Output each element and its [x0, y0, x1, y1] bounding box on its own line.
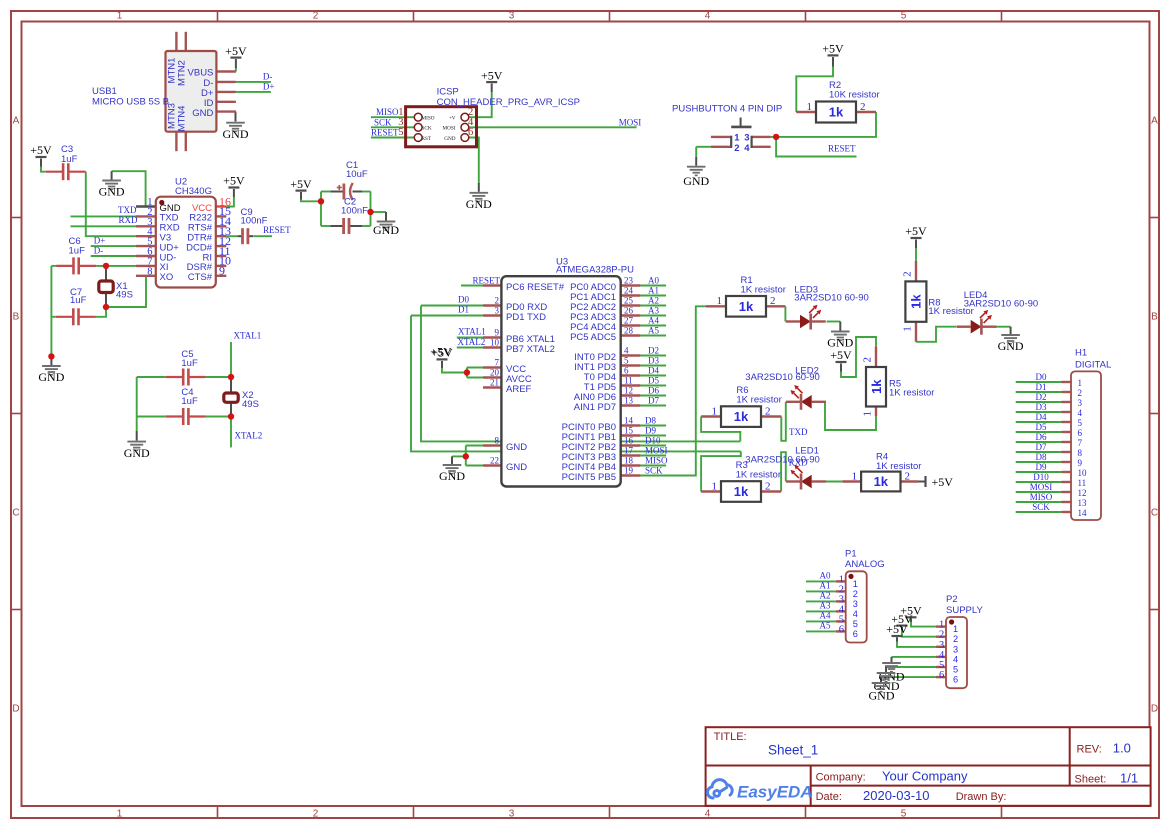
svg-text:A0: A0 — [648, 275, 659, 285]
svg-text:6: 6 — [1078, 428, 1083, 438]
svg-text:25: 25 — [624, 296, 634, 306]
svg-text:RXD: RXD — [118, 215, 138, 225]
svg-text:27: 27 — [624, 316, 634, 326]
svg-text:1: 1 — [1078, 378, 1083, 388]
svg-text:3: 3 — [495, 306, 500, 316]
svg-text:3AR2SD10 60-90: 3AR2SD10 60-90 — [964, 299, 1038, 310]
svg-text:7: 7 — [495, 358, 500, 368]
svg-text:CON_HEADER_PRG_AVR_ICSP: CON_HEADER_PRG_AVR_ICSP — [437, 97, 580, 108]
svg-text:6: 6 — [468, 127, 473, 138]
svg-text:+5V: +5V — [225, 44, 247, 58]
svg-text:8: 8 — [495, 436, 500, 446]
svg-text:D6: D6 — [648, 385, 659, 395]
svg-text:SCK: SCK — [645, 465, 663, 475]
svg-text:GND: GND — [506, 462, 527, 473]
svg-text:RESET: RESET — [828, 144, 856, 154]
svg-text:2: 2 — [770, 295, 776, 307]
svg-text:8: 8 — [147, 266, 152, 277]
svg-text:2: 2 — [734, 143, 739, 154]
svg-text:PC6 RESET#: PC6 RESET# — [506, 282, 565, 293]
svg-text:EasyEDA: EasyEDA — [737, 783, 813, 802]
svg-text:RESET: RESET — [472, 276, 500, 286]
svg-text:GND: GND — [124, 446, 150, 460]
svg-text:D7: D7 — [648, 395, 659, 405]
svg-text:11: 11 — [624, 376, 633, 386]
svg-text:1uF: 1uF — [69, 246, 86, 257]
svg-text:10K resistor: 10K resistor — [829, 89, 880, 100]
svg-text:5: 5 — [853, 619, 858, 629]
svg-text:3: 3 — [1078, 398, 1083, 408]
svg-text:TXD: TXD — [118, 205, 137, 215]
svg-text:GND: GND — [373, 223, 399, 237]
svg-text:1k: 1k — [869, 379, 884, 394]
svg-text:D3: D3 — [1036, 402, 1047, 412]
svg-text:AIN1 PD7: AIN1 PD7 — [574, 402, 616, 413]
svg-text:1: 1 — [901, 326, 913, 332]
svg-text:PCINT5 PB5: PCINT5 PB5 — [562, 472, 616, 483]
svg-text:1: 1 — [712, 480, 718, 492]
svg-text:ATMEGA328P-PU: ATMEGA328P-PU — [556, 265, 634, 276]
svg-text:3: 3 — [853, 599, 858, 609]
svg-text:49S: 49S — [116, 290, 133, 301]
svg-text:GND: GND — [439, 469, 465, 483]
svg-text:XTAL2: XTAL2 — [235, 430, 263, 440]
svg-text:2: 2 — [862, 357, 874, 363]
svg-text:26: 26 — [624, 306, 634, 316]
svg-text:9: 9 — [495, 328, 500, 338]
svg-text:D10: D10 — [1033, 472, 1049, 482]
svg-text:2: 2 — [765, 480, 771, 492]
svg-text:D: D — [12, 704, 19, 715]
svg-text:1uF: 1uF — [181, 396, 198, 407]
svg-text:A4: A4 — [820, 610, 831, 620]
svg-text:D2: D2 — [1036, 392, 1047, 402]
svg-text:D0: D0 — [458, 294, 469, 304]
svg-text:MISO: MISO — [645, 455, 668, 465]
svg-text:GND: GND — [444, 136, 455, 142]
svg-text:1K resistor: 1K resistor — [736, 470, 781, 481]
svg-text:2: 2 — [313, 809, 319, 820]
svg-text:2: 2 — [1078, 388, 1083, 398]
svg-text:A5: A5 — [820, 620, 831, 630]
svg-text:USB1: USB1 — [92, 86, 117, 97]
svg-text:TITLE:: TITLE: — [714, 731, 747, 743]
svg-text:1.0: 1.0 — [1113, 740, 1131, 755]
svg-text:SUPPLY: SUPPLY — [946, 605, 983, 616]
svg-text:MISO: MISO — [422, 116, 435, 122]
svg-text:2: 2 — [901, 271, 913, 277]
svg-text:GND: GND — [99, 185, 125, 199]
svg-text:D+: D+ — [263, 81, 275, 91]
svg-text:SCK: SCK — [374, 118, 392, 128]
svg-text:1: 1 — [953, 624, 958, 634]
svg-text:D0: D0 — [1036, 372, 1047, 382]
svg-text:D3: D3 — [648, 355, 659, 365]
svg-text:+5V: +5V — [822, 42, 844, 56]
svg-text:GND: GND — [683, 174, 709, 188]
svg-text:28: 28 — [624, 326, 634, 336]
svg-text:6: 6 — [839, 624, 844, 635]
svg-text:SCK: SCK — [1032, 502, 1050, 512]
svg-text:XTAL1: XTAL1 — [458, 327, 486, 337]
svg-text:4: 4 — [744, 143, 750, 154]
svg-text:P2: P2 — [946, 594, 958, 605]
svg-text:PUSHBUTTON 4 PIN DIP: PUSHBUTTON 4 PIN DIP — [672, 104, 782, 115]
svg-text:RXD: RXD — [789, 458, 809, 468]
svg-text:16: 16 — [624, 436, 634, 446]
svg-text:D: D — [1151, 704, 1158, 715]
svg-text:C: C — [12, 508, 19, 519]
svg-text:D5: D5 — [1036, 422, 1047, 432]
svg-text:1uF: 1uF — [181, 358, 198, 369]
svg-text:10: 10 — [490, 338, 500, 348]
svg-text:2: 2 — [313, 11, 319, 22]
svg-text:D4: D4 — [1036, 412, 1047, 422]
svg-text:D7: D7 — [1036, 442, 1047, 452]
svg-text:23: 23 — [624, 276, 634, 286]
svg-text:D-: D- — [94, 246, 104, 256]
svg-text:1k: 1k — [829, 105, 844, 120]
svg-text:A4: A4 — [648, 315, 659, 325]
svg-text:3AR2SD10 60-90: 3AR2SD10 60-90 — [745, 372, 819, 383]
svg-text:4: 4 — [705, 11, 711, 22]
svg-text:12: 12 — [1078, 488, 1087, 498]
svg-text:2: 2 — [953, 634, 958, 644]
svg-text:5: 5 — [901, 11, 907, 22]
svg-text:DIGITAL: DIGITAL — [1075, 359, 1111, 370]
svg-text:1k: 1k — [734, 484, 749, 499]
svg-text:9: 9 — [219, 264, 225, 278]
svg-text:H1: H1 — [1075, 348, 1087, 359]
svg-text:Your Company: Your Company — [882, 768, 968, 783]
svg-text:B: B — [1151, 312, 1158, 323]
svg-text:GND: GND — [998, 339, 1024, 353]
svg-text:D1: D1 — [458, 304, 469, 314]
svg-text:TXD: TXD — [789, 427, 808, 437]
svg-text:+5V: +5V — [30, 143, 52, 157]
svg-text:D-: D- — [263, 71, 273, 81]
svg-text:1: 1 — [862, 411, 874, 417]
svg-text:5: 5 — [624, 356, 629, 366]
svg-text:GND: GND — [192, 108, 213, 119]
svg-text:5: 5 — [398, 127, 403, 138]
svg-text:A1: A1 — [820, 580, 831, 590]
svg-text:1: 1 — [117, 11, 123, 22]
svg-text:13: 13 — [1078, 498, 1088, 508]
svg-text:+V: +V — [449, 116, 456, 122]
svg-text:MISO: MISO — [376, 107, 399, 117]
svg-text:A3: A3 — [648, 305, 659, 315]
svg-text:6: 6 — [953, 675, 958, 685]
svg-text:D+: D+ — [94, 236, 106, 246]
svg-text:+5V: +5V — [481, 68, 503, 82]
svg-text:XO: XO — [160, 272, 174, 283]
svg-text:6: 6 — [624, 366, 629, 376]
svg-text:3AR2SD10 60-90: 3AR2SD10 60-90 — [745, 455, 819, 466]
svg-text:4: 4 — [853, 609, 858, 619]
svg-text:Date:: Date: — [816, 791, 842, 803]
svg-text:D6: D6 — [1036, 432, 1047, 442]
svg-text:MISO: MISO — [1030, 492, 1053, 502]
svg-text:B: B — [13, 312, 20, 323]
svg-text:3: 3 — [509, 11, 515, 22]
svg-text:GND: GND — [223, 127, 249, 141]
svg-text:+5V: +5V — [886, 622, 908, 636]
svg-text:PC5 ADC5: PC5 ADC5 — [570, 332, 616, 343]
svg-text:D5: D5 — [648, 375, 659, 385]
svg-text:1: 1 — [117, 809, 123, 820]
svg-text:1/1: 1/1 — [1120, 770, 1138, 785]
svg-text:4: 4 — [953, 654, 958, 664]
svg-text:+5V: +5V — [290, 177, 312, 191]
svg-text:+5V: +5V — [430, 345, 452, 359]
svg-text:D1: D1 — [1036, 382, 1047, 392]
svg-text:A0: A0 — [820, 570, 831, 580]
svg-text:1: 1 — [717, 295, 723, 307]
svg-text:REV:: REV: — [1077, 743, 1102, 755]
svg-text:RST: RST — [422, 136, 432, 142]
svg-text:Company:: Company: — [816, 771, 866, 783]
svg-text:SCK: SCK — [422, 126, 432, 132]
svg-text:22: 22 — [490, 456, 499, 466]
svg-text:MOSI: MOSI — [443, 126, 456, 132]
svg-text:A5: A5 — [648, 325, 659, 335]
svg-text:A3: A3 — [820, 600, 831, 610]
svg-text:6: 6 — [853, 629, 858, 639]
svg-text:GND: GND — [506, 442, 527, 453]
svg-text:Sheet:: Sheet: — [1075, 773, 1107, 785]
svg-text:6: 6 — [939, 670, 944, 681]
svg-text:MTN4: MTN4 — [176, 106, 187, 132]
svg-text:4: 4 — [624, 346, 629, 356]
svg-text:VBUS: VBUS — [188, 68, 214, 79]
svg-text:XTAL2: XTAL2 — [458, 337, 486, 347]
svg-text:21: 21 — [490, 378, 499, 388]
svg-text:3: 3 — [509, 809, 515, 820]
svg-text:1k: 1k — [874, 474, 889, 489]
svg-text:A: A — [1151, 116, 1158, 127]
svg-text:15: 15 — [624, 426, 634, 436]
svg-text:MTN2: MTN2 — [176, 60, 187, 86]
svg-text:2: 2 — [905, 470, 911, 482]
svg-text:A: A — [13, 116, 20, 127]
svg-text:1: 1 — [853, 579, 858, 589]
svg-text:A1: A1 — [648, 285, 659, 295]
svg-text:17: 17 — [624, 446, 634, 456]
svg-text:1: 1 — [852, 470, 858, 482]
svg-text:2: 2 — [765, 405, 771, 417]
svg-text:3AR2SD10 60-90: 3AR2SD10 60-90 — [794, 293, 868, 304]
svg-text:+5V: +5V — [932, 475, 954, 489]
svg-text:GND: GND — [869, 689, 895, 703]
svg-text:MOSI: MOSI — [1030, 482, 1053, 492]
svg-text:ANALOG: ANALOG — [845, 559, 885, 570]
svg-text:1K resistor: 1K resistor — [741, 284, 786, 295]
svg-text:1K resistor: 1K resistor — [889, 388, 934, 399]
svg-text:4: 4 — [705, 809, 711, 820]
svg-text:100nF: 100nF — [341, 206, 368, 217]
svg-text:XTAL1: XTAL1 — [234, 330, 262, 340]
svg-text:1k: 1k — [734, 409, 749, 424]
svg-text:4: 4 — [1078, 408, 1083, 418]
svg-text:8: 8 — [1078, 448, 1083, 458]
svg-text:PD1 TXD: PD1 TXD — [506, 312, 546, 323]
svg-text:+5V: +5V — [905, 224, 927, 238]
svg-text:P1: P1 — [845, 549, 857, 560]
svg-text:1K resistor: 1K resistor — [736, 395, 781, 406]
svg-text:+5V: +5V — [223, 174, 245, 188]
svg-text:MOSI: MOSI — [619, 118, 642, 128]
svg-text:A2: A2 — [820, 590, 831, 600]
svg-text:AREF: AREF — [506, 384, 532, 395]
svg-text:7: 7 — [1078, 438, 1083, 448]
svg-text:14: 14 — [1078, 508, 1088, 518]
svg-text:49S: 49S — [242, 399, 259, 410]
svg-text:D8: D8 — [1036, 452, 1047, 462]
svg-text:PB7 XTAL2: PB7 XTAL2 — [506, 344, 555, 355]
svg-text:20: 20 — [490, 368, 500, 378]
svg-text:Drawn By:: Drawn By: — [956, 791, 1007, 803]
svg-text:11: 11 — [1078, 478, 1087, 488]
svg-text:13: 13 — [624, 396, 634, 406]
svg-text:D2: D2 — [648, 345, 659, 355]
svg-text:2: 2 — [860, 101, 866, 113]
svg-text:D9: D9 — [1036, 462, 1047, 472]
svg-text:D4: D4 — [648, 365, 659, 375]
svg-text:1uF: 1uF — [61, 154, 78, 165]
svg-text:D9: D9 — [645, 425, 656, 435]
svg-text:1: 1 — [807, 101, 813, 113]
svg-text:1k: 1k — [739, 299, 754, 314]
svg-text:A2: A2 — [648, 295, 659, 305]
svg-text:MICRO USB 5S B: MICRO USB 5S B — [92, 97, 169, 108]
svg-text:3: 3 — [953, 644, 958, 654]
svg-text:9: 9 — [1078, 458, 1083, 468]
svg-text:1: 1 — [712, 405, 718, 417]
svg-text:MOSI: MOSI — [645, 445, 668, 455]
svg-text:19: 19 — [624, 466, 634, 476]
svg-text:CTS#: CTS# — [188, 272, 213, 283]
svg-text:5: 5 — [901, 809, 907, 820]
svg-text:1uF: 1uF — [70, 295, 87, 306]
svg-text:24: 24 — [624, 286, 634, 296]
svg-text:CH340G: CH340G — [175, 186, 212, 197]
svg-text:1k: 1k — [909, 294, 924, 309]
svg-text:C: C — [1151, 508, 1158, 519]
svg-text:2: 2 — [853, 589, 858, 599]
svg-text:D10: D10 — [645, 435, 661, 445]
svg-text:10: 10 — [1078, 468, 1088, 478]
svg-text:10uF: 10uF — [346, 169, 368, 180]
svg-text:RESET: RESET — [263, 225, 291, 235]
svg-text:100nF: 100nF — [241, 216, 268, 227]
svg-text:1K resistor: 1K resistor — [876, 461, 921, 472]
svg-text:14: 14 — [624, 416, 634, 426]
svg-text:2020-03-10: 2020-03-10 — [863, 788, 930, 803]
svg-text:D8: D8 — [645, 415, 656, 425]
svg-text:+5V: +5V — [830, 348, 852, 362]
svg-text:RESET: RESET — [371, 127, 399, 137]
svg-text:GND: GND — [38, 370, 64, 384]
svg-text:5: 5 — [953, 665, 958, 675]
svg-text:Sheet_1: Sheet_1 — [768, 743, 818, 758]
svg-text:12: 12 — [624, 386, 633, 396]
svg-text:5: 5 — [1078, 418, 1083, 428]
svg-text:GND: GND — [466, 197, 492, 211]
svg-text:2: 2 — [495, 296, 500, 306]
svg-text:18: 18 — [624, 456, 634, 466]
